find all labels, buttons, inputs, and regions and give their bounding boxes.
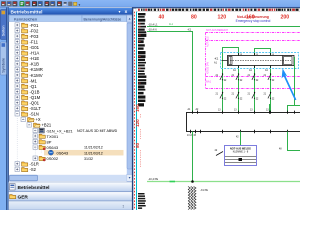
svg-text:×: ×: [125, 9, 128, 15]
sheet top header strip: [136, 8, 300, 11]
svg-text:160: 160: [135, 104, 140, 112]
sheet bottom-left frame text: [138, 193, 146, 209]
bottom panel bar GER: [9, 192, 134, 201]
macro box 1: [223, 48, 239, 113]
svg-text:120: 120: [135, 119, 140, 127]
svg-text:-S2: -S2: [30, 167, 37, 172]
svg-text:-S1N: -S1N: [30, 112, 39, 117]
svg-text:0S002: 0S002: [47, 156, 59, 161]
tree vertical scrollbar: [127, 15, 133, 181]
svg-text:-10,4 L1: -10,4 L1: [148, 23, 158, 27]
cable twist symbol: [188, 187, 208, 210]
top toolbar: [0, 0, 300, 8]
red dashed plot margin: [134, 12, 136, 210]
wire vertical feeder: [192, 32, 194, 113]
left sidebar: [0, 8, 8, 211]
svg-text:-X1 PE: -X1 PE: [200, 189, 208, 192]
svg-text:-F03: -F03: [30, 34, 39, 39]
device tree panel frame: [8, 8, 134, 211]
wire N horizontal: [147, 31, 193, 33]
tree horizontal scrollbar: [9, 175, 127, 181]
blue mouse cursor arrow: [282, 68, 297, 100]
contact S21 upper: [216, 73, 227, 82]
contact S22 upper: [232, 73, 243, 82]
contact S24 upper: [264, 73, 275, 82]
small symbol left of label box: [215, 149, 224, 156]
svg-text:Symbole: Symbole: [1, 58, 5, 73]
svg-text:80: 80: [191, 14, 197, 20]
svg-text:NOT-AUS BEREICH: NOT-AUS BEREICH: [206, 29, 228, 32]
svg-text:Betriebsmittel: Betriebsmittel: [18, 185, 50, 191]
sheet left red scale numbers: [135, 104, 141, 168]
tree branch dotted lines: [22, 116, 24, 119]
contact S23 lower: [248, 92, 259, 101]
svg-text:80: 80: [135, 142, 140, 148]
contact S23 upper: [248, 73, 259, 82]
sheet left bar column: [138, 13, 146, 106]
svg-text:▾: ▾: [79, 3, 81, 7]
svg-text:KREIS 24V: KREIS 24V: [207, 62, 210, 74]
contact S24 lower: [264, 92, 275, 101]
svg-text:Betriebsmittel: Betriebsmittel: [11, 9, 43, 15]
Not-Aus zone dashed border: [206, 33, 301, 89]
svg-text:-Q1M: -Q1M: [30, 95, 41, 100]
svg-text:-K1MR: -K1MR: [30, 67, 43, 72]
terminal block X2: [187, 113, 302, 132]
svg-text:-S1R: -S1R: [30, 162, 39, 167]
svg-text:31/32: 31/32: [84, 157, 93, 161]
svg-text:-Q01: -Q01: [30, 101, 40, 106]
svg-text:Kennzeichen: Kennzeichen: [14, 16, 37, 21]
svg-text:KLEMME 1 - 8: KLEMME 1 - 8: [233, 151, 249, 154]
svg-text:-10,4 PE: -10,4 PE: [148, 177, 158, 181]
svg-text:-H1A: -H1A: [30, 51, 40, 56]
svg-text:-H1E: -H1E: [30, 56, 40, 61]
svg-text:200: 200: [281, 14, 290, 20]
tree rows: [15, 23, 124, 172]
svg-text:0S643: 0S643: [47, 145, 59, 150]
zone label text: [206, 29, 228, 84]
svg-text:-X1: -X1: [187, 27, 192, 31]
wire block right down: [288, 132, 301, 151]
svg-text:Seiten: Seiten: [1, 26, 5, 37]
svg-text:-K1: -K1: [214, 57, 219, 61]
svg-text:11/21/02/12: 11/21/02/12: [84, 146, 103, 150]
svg-text:Emergency stop control: Emergency stop control: [236, 19, 271, 23]
device label box: [225, 146, 257, 166]
relay right green pin: [294, 57, 296, 66]
svg-text:-F01: -F01: [30, 23, 39, 28]
svg-text:-F02: -F02: [30, 28, 39, 33]
svg-text:8P: 8P: [47, 139, 52, 144]
svg-text:NOT-AUS: NOT-AUS: [207, 36, 210, 47]
wire block to bus: [192, 132, 194, 182]
svg-text:13 23 33: 13 23 33: [187, 135, 197, 137]
relay pin ticks and labels: [233, 53, 275, 72]
svg-text:+X: +X: [36, 117, 41, 122]
svg-text:-M1: -M1: [30, 78, 38, 83]
drawing title: [236, 15, 271, 23]
bottom collapsed bar: [9, 201, 134, 210]
svg-text:-S1N_+X_+B21: -S1N_+X_+B21: [46, 129, 73, 133]
svg-text:-Q1B: -Q1B: [30, 89, 40, 94]
safety relay K1 body: [228, 56, 295, 66]
svg-text:↕: ↕: [122, 203, 124, 208]
bus wire PE bottom: [147, 181, 300, 183]
svg-text:-G01: -G01: [30, 45, 40, 50]
svg-text:GER: GER: [18, 195, 29, 201]
block bottom pin ticks: [187, 130, 288, 151]
svg-text:NA1: NA1: [206, 80, 212, 84]
selected tree row: [44, 150, 124, 156]
svg-text:-F11: -F11: [30, 39, 39, 44]
bottom panel bar Betriebsmittel: [9, 182, 134, 192]
svg-text:-Q1: -Q1: [30, 84, 38, 89]
svg-text:▾: ▾: [119, 9, 121, 14]
svg-text:-K1B: -K1B: [30, 62, 40, 67]
bright wire segment: [170, 181, 176, 183]
contact S22 lower: [232, 92, 243, 101]
wire corner to edge: [288, 106, 301, 113]
short stub wire: [269, 104, 271, 113]
svg-text:-K1MV: -K1MV: [30, 73, 43, 78]
svg-text:Benennung/Anschlüsse: Benennung/Anschlüsse: [84, 17, 122, 21]
block top pin ticks: [188, 108, 295, 114]
wire relay output down: [294, 66, 296, 106]
svg-text:NOT-AUS 3D MIT ABWD: NOT-AUS 3D MIT ABWD: [77, 129, 118, 133]
column coordinate numbers: [159, 14, 290, 20]
schematic window frame: [132, 8, 300, 211]
macro box 2: [255, 49, 271, 113]
cyan guide line: [136, 12, 138, 210]
wire block to label box: [240, 132, 242, 146]
svg-text:+B21: +B21: [42, 123, 52, 128]
svg-text:1L1: 1L1: [169, 23, 174, 26]
svg-text:120: 120: [218, 14, 227, 20]
relay left pin stub: [214, 57, 228, 65]
contact S21 lower: [216, 92, 227, 101]
svg-text:0S643: 0S643: [57, 150, 69, 155]
svg-text:-10,4 N: -10,4 N: [148, 27, 157, 31]
svg-text:-S1LT: -S1LT: [30, 106, 42, 111]
relay left terminal section: [229, 57, 233, 65]
svg-text:TX001: TX001: [47, 134, 60, 139]
svg-text:11/21/03/12: 11/21/03/12: [84, 151, 103, 155]
wire L1 top horizontal: [147, 26, 300, 28]
svg-text:40: 40: [159, 14, 165, 20]
junction dot: [191, 180, 194, 183]
safety relay K1 selection box: [221, 53, 299, 69]
